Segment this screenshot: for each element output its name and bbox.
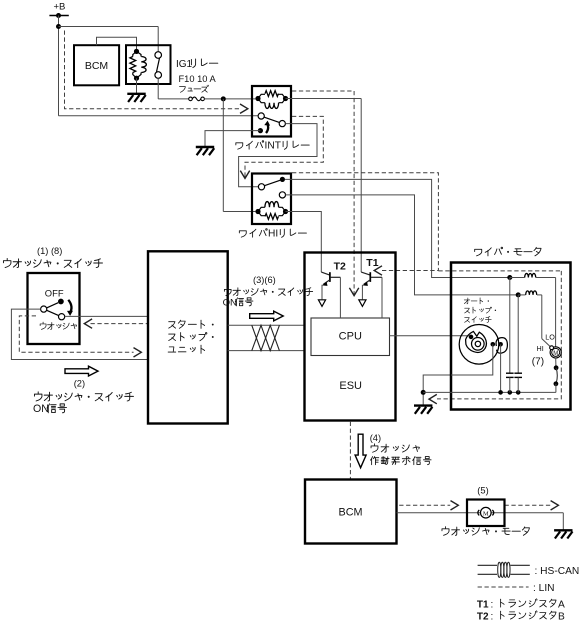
svg-text:M: M [483,511,489,518]
svg-text::: : [491,599,494,610]
svg-text:CPU: CPU [339,331,362,343]
svg-text:(5): (5) [477,486,488,496]
svg-text:(4): (4) [370,433,381,443]
svg-text:LO: LO [545,333,555,342]
svg-text:OFF: OFF [45,287,64,298]
svg-text:T1: T1 [477,599,489,610]
svg-text:HI: HI [537,344,544,353]
svg-text:M: M [553,351,558,357]
svg-text:T2: T2 [334,260,346,272]
svg-text:ESU: ESU [339,380,362,392]
svg-text:BCM: BCM [85,60,108,72]
svg-text:INT: INT [265,141,281,152]
svg-text:(2): (2) [74,379,85,389]
svg-text::: : [491,611,494,622]
svg-text:ON: ON [33,403,49,415]
svg-text:B: B [558,612,565,623]
svg-text:: LIN: : LIN [533,583,555,594]
svg-text:ON: ON [223,297,237,308]
svg-text:IG1: IG1 [176,59,193,70]
svg-text:(7): (7) [532,357,544,368]
svg-text:+B: +B [54,2,66,13]
svg-text:(3)(6): (3)(6) [253,275,276,285]
svg-text:T2: T2 [477,611,489,622]
svg-text:BCM: BCM [339,507,363,519]
svg-text:F10 10 A: F10 10 A [179,74,217,84]
svg-text:: HS-CAN: : HS-CAN [535,566,580,577]
svg-text:A: A [558,600,565,611]
svg-text:HI: HI [268,229,278,240]
svg-text:(1) (8): (1) (8) [37,246,62,256]
svg-text:T1: T1 [366,257,378,269]
